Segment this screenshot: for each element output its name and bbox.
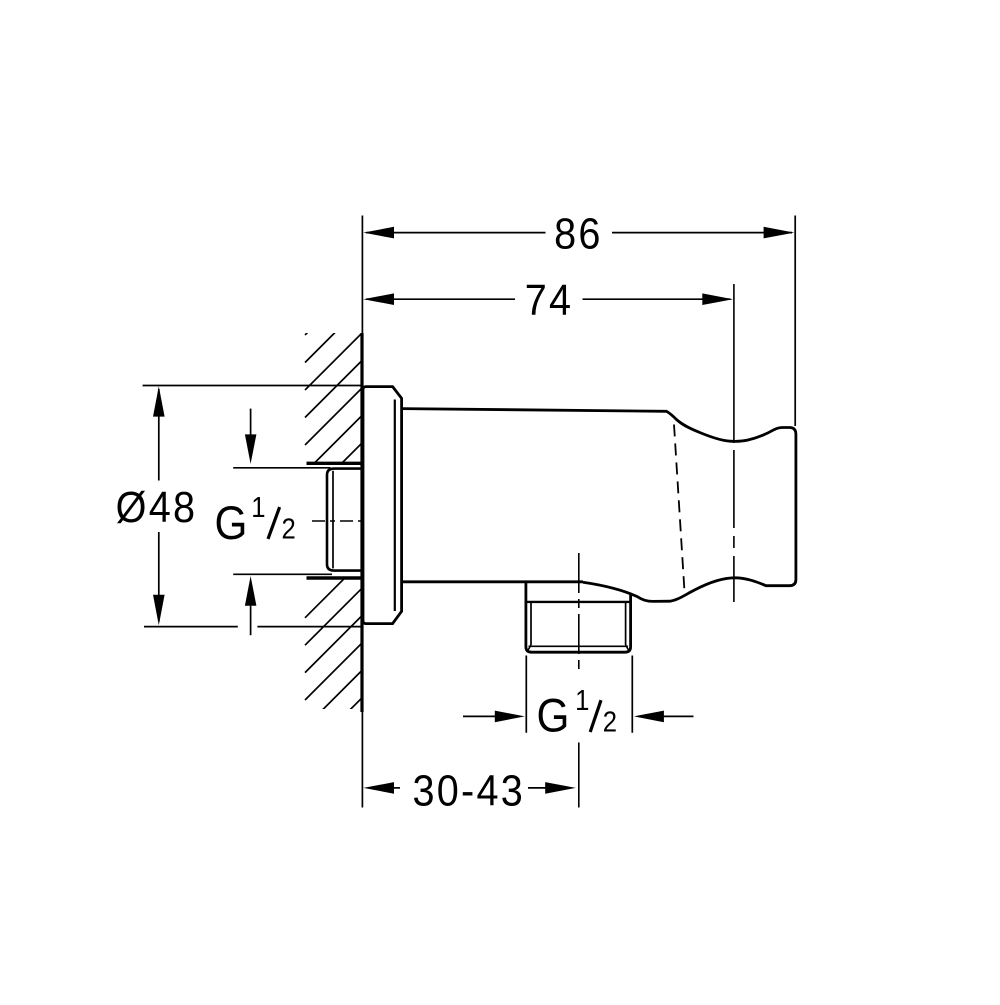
svg-text:G: G (536, 691, 569, 743)
flange (363, 387, 402, 624)
dim 86 arrow left (363, 227, 394, 239)
dim 74 text (525, 275, 574, 324)
dim 3043 ext left (361, 712, 363, 808)
thread callout left text slash (268, 507, 280, 539)
dim O48 extension top (143, 385, 362, 387)
thread callout left ext bottom (233, 573, 332, 575)
outlet thread bottom line (529, 645, 629, 647)
wall hole top edge (307, 462, 362, 465)
thread callout left text 2 (281, 512, 295, 545)
outlet centerline (578, 553, 580, 674)
svg-text:30-43: 30-43 (412, 765, 525, 814)
dim G12 bottom text 1 (575, 684, 589, 717)
dim 74 extension right (733, 284, 735, 443)
outlet chamfer left (528, 645, 531, 651)
dim 74 arrow left (363, 293, 394, 305)
dim 3043 arrow right (545, 782, 576, 794)
dim 86 extension left (361, 216, 363, 334)
svg-text:1: 1 (251, 491, 265, 524)
outlet thread right line (625, 602, 627, 645)
outlet thread left line (530, 602, 532, 645)
dim G12 bottom right head (634, 711, 664, 723)
dim O48 arrow bottom (153, 595, 165, 625)
svg-text:86: 86 (554, 209, 603, 258)
inlet thread line (332, 471, 334, 569)
dim G12 bottom ext right (631, 656, 633, 733)
dim O48 line (158, 389, 160, 481)
inlet centerline (312, 520, 362, 522)
outlet spigot (526, 582, 631, 652)
thread callout left arrow down stem (250, 409, 252, 437)
svg-text:74: 74 (525, 275, 574, 324)
dim 86 arrow right (764, 227, 795, 239)
inlet connector G1/2 (327, 469, 362, 571)
dim O48 extension bottom (144, 626, 238, 628)
dim 86 line (366, 232, 546, 234)
thread callout left text G (215, 498, 248, 550)
dim 86 text (554, 209, 603, 258)
body bottom line (402, 580, 583, 583)
outlet chamfer right (626, 645, 629, 651)
dim 3043 text (412, 765, 525, 814)
svg-text:Ø48: Ø48 (116, 482, 198, 531)
dim 3043 line left stub (393, 787, 400, 789)
outlet thread start line (526, 601, 631, 603)
thread callout left arrow down head (245, 434, 257, 464)
dim 86 extension right (794, 216, 796, 427)
flange face edge (394, 400, 396, 612)
dim G12 bottom left tail (463, 715, 496, 717)
dim G12 bottom text slash (590, 700, 601, 732)
dim G12 bottom ext left (525, 656, 527, 733)
hidden cone edge (674, 425, 685, 592)
thread callout left arrow up head (245, 576, 257, 606)
svg-text:1: 1 (575, 684, 589, 717)
body and holder outline (402, 409, 796, 602)
svg-text:G: G (215, 498, 248, 550)
dim 74 arrow right (702, 293, 733, 305)
wall hatching (305, 278, 362, 755)
wall hole bottom edge (307, 576, 362, 579)
dim O48 text (116, 482, 198, 531)
dim G12 bottom right tail (664, 715, 694, 717)
wall face line (360, 333, 363, 712)
dim G12 bottom left head (495, 711, 525, 723)
svg-text:2: 2 (281, 512, 295, 545)
dim 3043 arrow left (363, 782, 394, 794)
dim 3043 line right stub (528, 787, 546, 789)
dim G12 bottom text 2 (603, 705, 617, 738)
dim O48 arrow top (153, 386, 165, 416)
dim 74 line (366, 298, 515, 300)
thread callout left arrow up stem (250, 606, 252, 636)
thread callout left text 1 (251, 491, 265, 524)
thread callout left ext top (233, 467, 330, 469)
dim G12 bottom text G (536, 691, 569, 743)
svg-text:2: 2 (603, 705, 617, 738)
